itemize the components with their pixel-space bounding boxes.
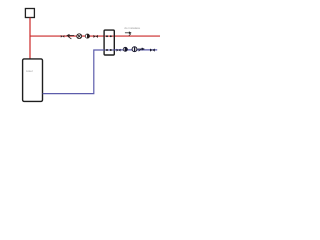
- node dot bottom-left: [106, 49, 108, 51]
- valve V3 (gate valve bowtie): [117, 49, 121, 52]
- valve V2 (gate valve bowtie): [93, 35, 98, 38]
- check valve / flow arrow pointing left: [66, 34, 74, 39]
- meter M2 (half-filled circle): [123, 47, 127, 51]
- wire: blue return main right of separator: [114, 49, 157, 51]
- hydraulic separator: [104, 30, 114, 55]
- check valve / flow arrow pointing right: [138, 48, 145, 52]
- valve V1 (gate valve bowtie): [61, 35, 65, 38]
- flow arrow to installation (right): [125, 31, 132, 35]
- pump P2 (circle with vertical vane): [132, 47, 137, 52]
- valve V4 (gate valve bowtie): [150, 49, 155, 52]
- boiler: [23, 59, 43, 102]
- svg-text:do instalace: do instalace: [124, 26, 140, 30]
- svg-text:kotel: kotel: [26, 69, 33, 73]
- node dot top-left: [106, 35, 108, 37]
- wire: red supply main horizontal: [30, 35, 160, 37]
- red pipe through separator: [105, 35, 114, 37]
- expansion tank: [25, 9, 34, 18]
- node dot top-right: [110, 35, 112, 37]
- blue pipe through separator: [105, 49, 114, 51]
- wire: red riser from expansion tank down to boiler: [29, 18, 31, 60]
- wire: blue return from boiler to separator: [43, 50, 105, 94]
- pump P1 (circle with cross): [77, 34, 82, 39]
- node dot bottom-right: [110, 49, 112, 51]
- meter M1 (half-filled circle): [85, 34, 89, 38]
